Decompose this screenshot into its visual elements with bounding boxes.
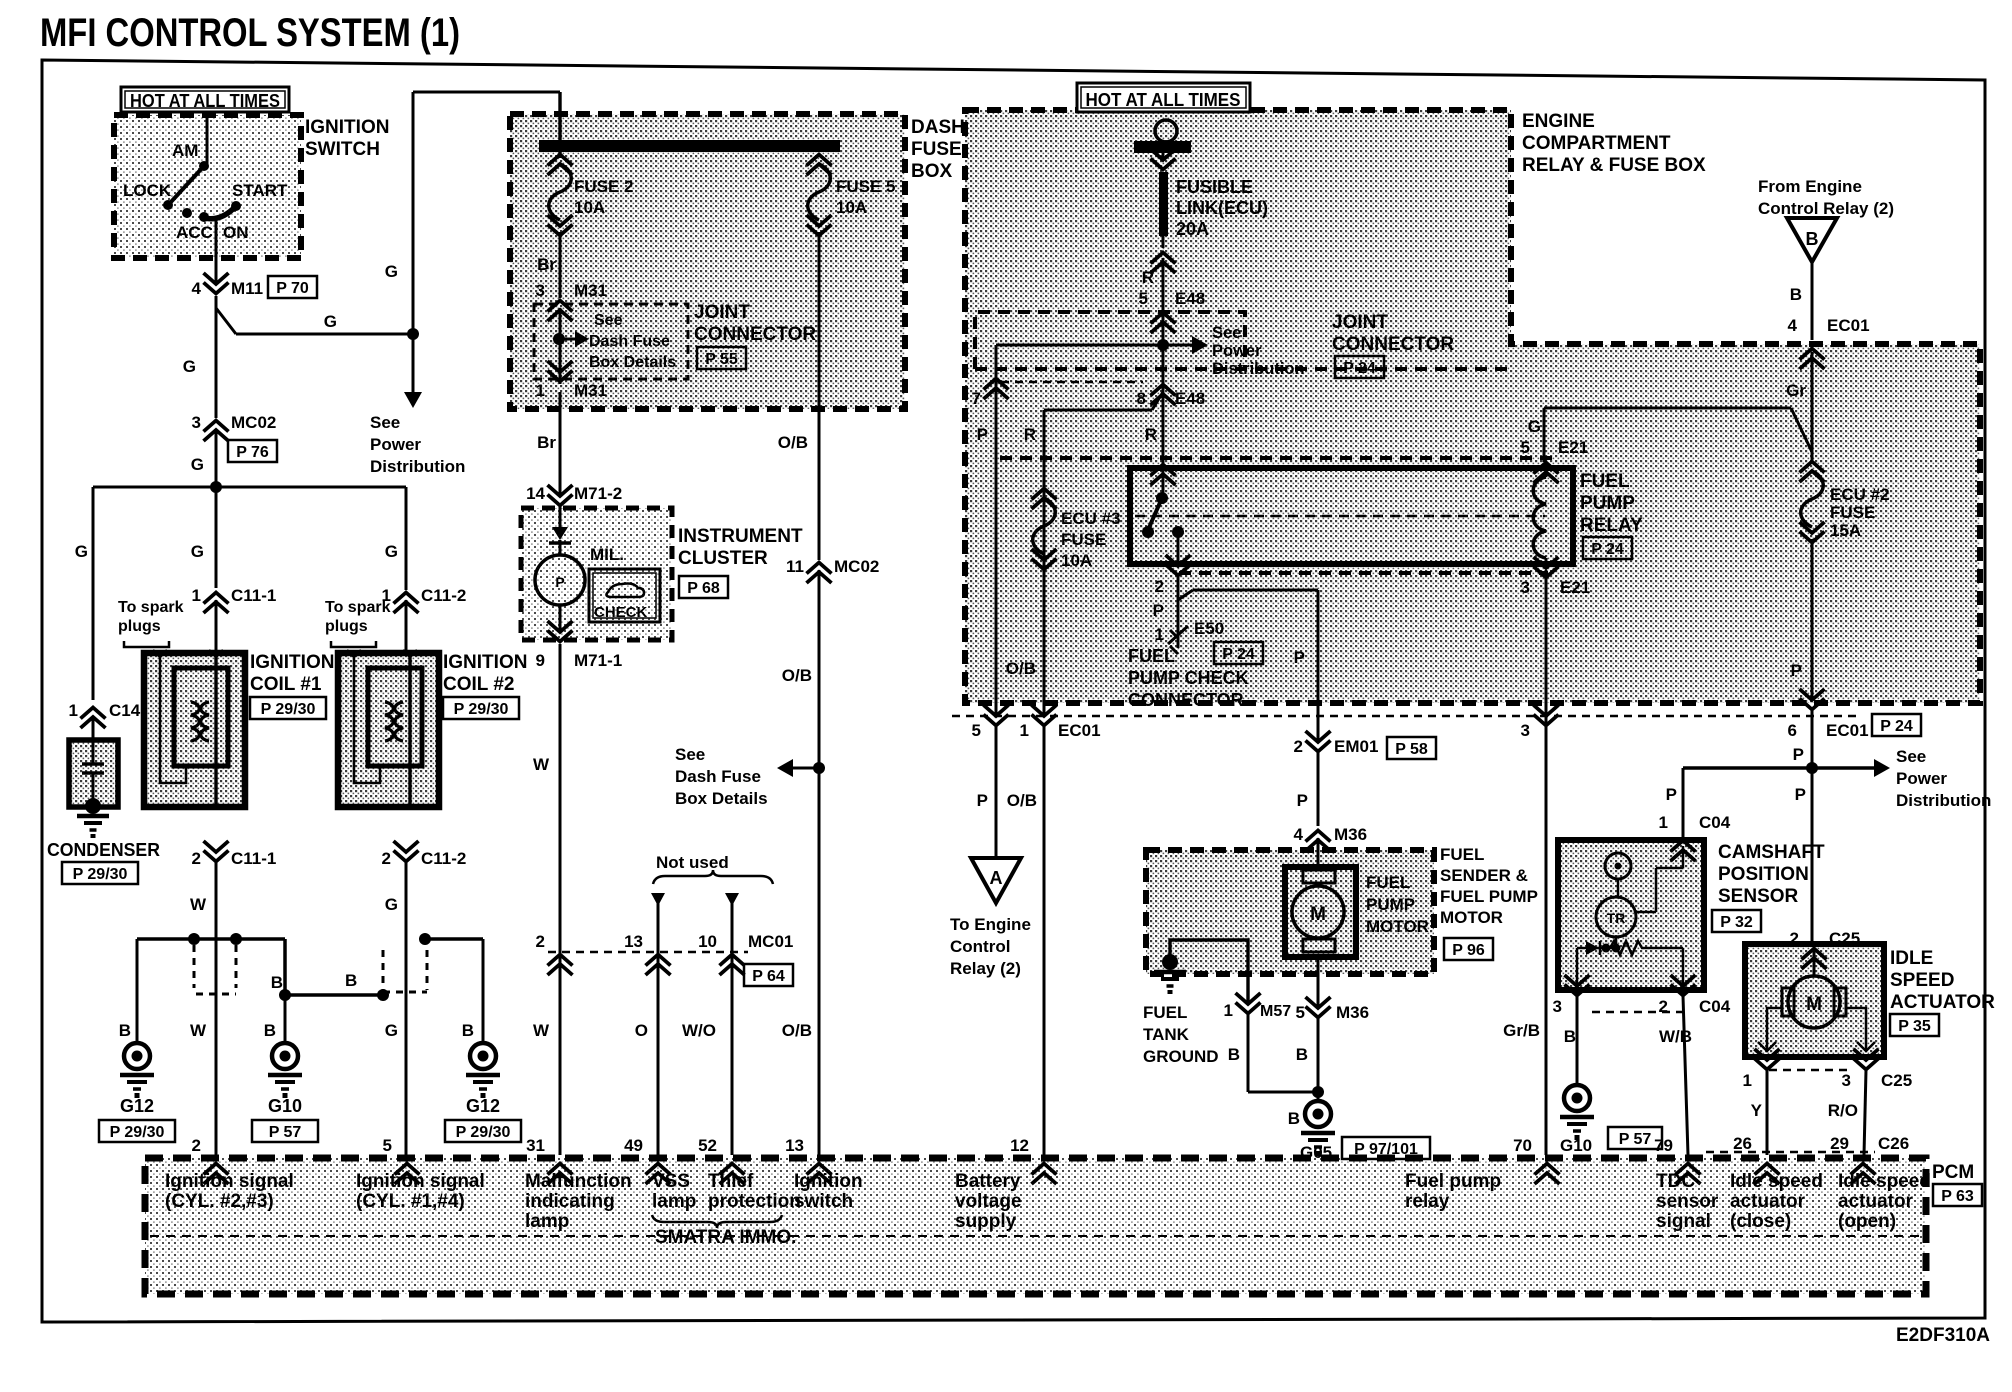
svg-text:CHECK: CHECK <box>594 604 648 621</box>
svg-text:2: 2 <box>1155 577 1164 596</box>
svg-text:M31: M31 <box>574 381 607 400</box>
svg-text:2: 2 <box>536 932 545 951</box>
svg-text:R/O: R/O <box>1828 1101 1858 1120</box>
svg-text:O: O <box>635 1021 648 1040</box>
svg-text:C14: C14 <box>109 701 141 720</box>
svg-text:M57: M57 <box>1260 1003 1291 1020</box>
svg-text:10A: 10A <box>1061 551 1092 570</box>
svg-text:8: 8 <box>1137 389 1146 408</box>
svg-text:G: G <box>1528 417 1541 436</box>
svg-text:See: See <box>1212 324 1241 342</box>
svg-text:MIL.: MIL. <box>590 545 624 564</box>
svg-text:ACTUATOR: ACTUATOR <box>1890 992 1995 1013</box>
svg-text:5: 5 <box>1296 1003 1305 1022</box>
svg-text:(close): (close) <box>1730 1211 1791 1232</box>
svg-text:E21: E21 <box>1558 438 1588 457</box>
svg-text:FUSE 2: FUSE 2 <box>574 177 634 196</box>
svg-text:E48: E48 <box>1175 389 1205 408</box>
svg-text:COMPARTMENT: COMPARTMENT <box>1522 133 1671 154</box>
svg-text:P 32: P 32 <box>1720 914 1753 931</box>
svg-text:R: R <box>1145 425 1157 444</box>
svg-text:9: 9 <box>536 651 545 670</box>
svg-text:M71-1: M71-1 <box>574 651 622 670</box>
svg-text:MOTOR: MOTOR <box>1366 917 1429 936</box>
svg-text:Ignition: Ignition <box>794 1171 863 1192</box>
svg-text:O/B: O/B <box>1006 659 1036 678</box>
svg-text:See: See <box>594 312 623 329</box>
svg-text:10A: 10A <box>836 198 867 217</box>
svg-text:COIL #1: COIL #1 <box>250 674 322 695</box>
svg-text:MFI CONTROL SYSTEM (1): MFI CONTROL SYSTEM (1) <box>40 11 460 55</box>
svg-text:Control Relay (2): Control Relay (2) <box>1758 199 1894 218</box>
svg-text:FUSE: FUSE <box>911 139 962 160</box>
svg-text:Ignition signal: Ignition signal <box>356 1171 485 1192</box>
svg-text:PUMP: PUMP <box>1580 493 1635 514</box>
svg-text:P 24: P 24 <box>1222 646 1255 663</box>
svg-text:CONNECTOR: CONNECTOR <box>694 324 816 345</box>
svg-text:B: B <box>1790 285 1802 304</box>
svg-text:Y: Y <box>1751 1101 1763 1120</box>
svg-text:B: B <box>1806 229 1819 249</box>
svg-text:3: 3 <box>1521 721 1530 740</box>
svg-text:5: 5 <box>1521 438 1530 457</box>
svg-text:P: P <box>1791 661 1802 680</box>
svg-text:Br: Br <box>537 433 556 452</box>
svg-text:Dash Fuse: Dash Fuse <box>589 333 670 350</box>
svg-text:P 24: P 24 <box>1591 541 1624 558</box>
svg-text:INSTRUMENT: INSTRUMENT <box>678 526 803 547</box>
svg-text:ENGINE: ENGINE <box>1522 111 1595 132</box>
svg-text:EC01: EC01 <box>1058 721 1101 740</box>
svg-text:IGNITION: IGNITION <box>305 117 389 138</box>
svg-text:MC02: MC02 <box>231 413 276 432</box>
svg-text:Br: Br <box>537 255 556 274</box>
svg-text:G: G <box>75 542 88 561</box>
svg-text:ECU #3: ECU #3 <box>1061 509 1121 528</box>
svg-text:HOT AT ALL TIMES: HOT AT ALL TIMES <box>1086 90 1241 110</box>
svg-text:G: G <box>385 895 398 914</box>
svg-text:POSITION: POSITION <box>1718 864 1809 885</box>
svg-text:MC02: MC02 <box>834 557 879 576</box>
svg-text:SENDER &: SENDER & <box>1440 866 1528 885</box>
svg-text:(CYL. #2,#3): (CYL. #2,#3) <box>165 1191 274 1212</box>
svg-text:MOTOR: MOTOR <box>1440 908 1503 927</box>
svg-text:10: 10 <box>698 932 717 951</box>
svg-text:P: P <box>1294 648 1305 667</box>
svg-text:FUEL: FUEL <box>1143 1003 1187 1022</box>
svg-text:(CYL. #1,#4): (CYL. #1,#4) <box>356 1191 465 1212</box>
svg-text:P: P <box>555 574 564 590</box>
svg-text:C11-1: C11-1 <box>231 586 276 605</box>
svg-text:Gr/B: Gr/B <box>1503 1021 1540 1040</box>
svg-text:HOT AT ALL TIMES: HOT AT ALL TIMES <box>130 91 280 111</box>
svg-text:7: 7 <box>972 389 981 408</box>
svg-text:BOX: BOX <box>911 161 953 182</box>
svg-text:PUMP: PUMP <box>1366 895 1415 914</box>
svg-text:C26: C26 <box>1878 1134 1909 1153</box>
svg-text:actuator: actuator <box>1838 1191 1914 1212</box>
svg-text:70: 70 <box>1513 1136 1532 1155</box>
svg-text:Power: Power <box>370 435 421 454</box>
svg-text:Distribution: Distribution <box>370 457 465 476</box>
svg-text:lamp: lamp <box>525 1211 569 1232</box>
svg-text:1: 1 <box>1743 1071 1752 1090</box>
svg-text:indicating: indicating <box>525 1191 615 1212</box>
svg-text:13: 13 <box>624 932 643 951</box>
svg-text:(open): (open) <box>1838 1211 1896 1232</box>
svg-text:MC01: MC01 <box>748 932 793 951</box>
svg-text:3: 3 <box>536 281 545 300</box>
svg-text:O/B: O/B <box>778 433 808 452</box>
svg-text:To spark: To spark <box>118 599 184 616</box>
svg-text:Power: Power <box>1896 769 1947 788</box>
svg-text:RELAY & FUSE BOX: RELAY & FUSE BOX <box>1522 155 1706 176</box>
svg-text:P: P <box>1153 601 1164 620</box>
svg-text:C11-2: C11-2 <box>421 849 466 868</box>
svg-text:switch: switch <box>794 1191 853 1212</box>
svg-text:plugs: plugs <box>325 618 368 635</box>
svg-text:Ignition signal: Ignition signal <box>165 1171 294 1192</box>
svg-text:Gr: Gr <box>1786 381 1806 400</box>
svg-text:P: P <box>1297 791 1308 810</box>
svg-text:W/B: W/B <box>1659 1027 1692 1046</box>
svg-text:G10: G10 <box>1560 1136 1592 1155</box>
svg-text:CONDENSER: CONDENSER <box>47 840 160 860</box>
svg-text:relay: relay <box>1405 1191 1450 1212</box>
svg-text:FUEL PUMP: FUEL PUMP <box>1440 887 1538 906</box>
svg-text:P 29/30: P 29/30 <box>456 1124 511 1141</box>
svg-text:SENSOR: SENSOR <box>1718 886 1799 907</box>
svg-text:Malfunction: Malfunction <box>525 1171 632 1192</box>
svg-text:20A: 20A <box>1176 219 1209 239</box>
svg-text:P: P <box>1793 745 1804 764</box>
svg-text:VSS: VSS <box>652 1171 690 1192</box>
svg-text:voltage: voltage <box>955 1191 1022 1212</box>
svg-text:3: 3 <box>192 413 201 432</box>
svg-text:AM: AM <box>172 141 198 160</box>
svg-text:See: See <box>370 413 400 432</box>
svg-text:JOINT: JOINT <box>694 302 750 323</box>
svg-text:FUSE: FUSE <box>1830 503 1875 522</box>
svg-text:Relay (2): Relay (2) <box>950 959 1021 978</box>
svg-text:TDC: TDC <box>1656 1171 1695 1192</box>
svg-text:P 63: P 63 <box>1941 1188 1974 1205</box>
svg-text:W: W <box>190 1021 207 1040</box>
svg-text:START: START <box>232 181 288 200</box>
svg-text:15A: 15A <box>1830 521 1861 540</box>
svg-text:DASH: DASH <box>911 117 965 138</box>
svg-text:SWITCH: SWITCH <box>305 139 380 160</box>
svg-text:O/B: O/B <box>1007 791 1037 810</box>
svg-text:Idle speed: Idle speed <box>1730 1171 1823 1192</box>
svg-text:See: See <box>675 745 705 764</box>
svg-text:FUEL: FUEL <box>1580 471 1630 492</box>
svg-text:O/B: O/B <box>782 666 812 685</box>
svg-text:E2DF310A: E2DF310A <box>1896 1325 1990 1346</box>
svg-text:E50: E50 <box>1194 619 1224 638</box>
svg-text:B: B <box>1564 1027 1576 1046</box>
svg-text:G: G <box>385 542 398 561</box>
svg-text:O/B: O/B <box>782 1021 812 1040</box>
svg-text:Box Details: Box Details <box>675 789 768 808</box>
svg-text:M31: M31 <box>574 281 607 300</box>
svg-text:FUEL: FUEL <box>1128 646 1175 666</box>
svg-text:6: 6 <box>1788 721 1797 740</box>
svg-text:2: 2 <box>1294 737 1303 756</box>
svg-text:G12: G12 <box>466 1096 500 1116</box>
svg-text:ECU #2: ECU #2 <box>1830 485 1890 504</box>
svg-text:B: B <box>264 1021 276 1040</box>
svg-text:B: B <box>1296 1045 1308 1064</box>
svg-text:P 55: P 55 <box>705 351 738 368</box>
svg-text:W: W <box>533 755 550 774</box>
svg-text:G: G <box>183 357 196 376</box>
svg-text:P 76: P 76 <box>236 444 269 461</box>
svg-text:R: R <box>1024 425 1036 444</box>
svg-text:P 29/30: P 29/30 <box>261 701 316 718</box>
svg-text:B: B <box>345 971 357 990</box>
svg-text:R: R <box>1142 268 1154 287</box>
svg-text:GROUND: GROUND <box>1143 1047 1219 1066</box>
svg-text:3: 3 <box>1521 578 1530 597</box>
svg-text:C04: C04 <box>1699 813 1731 832</box>
svg-text:FUEL: FUEL <box>1440 845 1484 864</box>
svg-text:13: 13 <box>785 1136 804 1155</box>
svg-text:W: W <box>190 895 207 914</box>
svg-text:P 70: P 70 <box>276 280 309 297</box>
svg-text:CONNECTOR: CONNECTOR <box>1332 334 1454 355</box>
svg-text:Battery: Battery <box>955 1171 1021 1192</box>
svg-text:P 96: P 96 <box>1452 942 1485 959</box>
svg-text:P 64: P 64 <box>752 968 785 985</box>
svg-text:E48: E48 <box>1175 289 1205 308</box>
svg-text:P 24: P 24 <box>1880 718 1913 735</box>
svg-text:supply: supply <box>955 1211 1017 1232</box>
svg-text:M: M <box>1806 994 1822 1015</box>
svg-text:52: 52 <box>698 1136 717 1155</box>
svg-text:M71-2: M71-2 <box>574 484 622 503</box>
svg-text:1: 1 <box>1020 721 1029 740</box>
svg-text:FUSIBLE: FUSIBLE <box>1176 177 1253 197</box>
svg-text:A: A <box>990 868 1003 888</box>
svg-text:LOCK: LOCK <box>123 181 172 200</box>
svg-text:P: P <box>977 791 988 810</box>
svg-text:B: B <box>119 1021 131 1040</box>
svg-text:EC01: EC01 <box>1826 721 1869 740</box>
svg-text:P 58: P 58 <box>1395 741 1428 758</box>
svg-text:E21: E21 <box>1560 578 1590 597</box>
svg-text:Thief: Thief <box>708 1171 754 1192</box>
svg-text:5: 5 <box>1139 289 1148 308</box>
svg-text:P 68: P 68 <box>687 580 720 597</box>
svg-text:4: 4 <box>1294 825 1304 844</box>
svg-text:SPEED: SPEED <box>1890 970 1954 991</box>
svg-text:FUSE: FUSE <box>1061 530 1106 549</box>
svg-text:Not used: Not used <box>656 853 729 872</box>
svg-text:29: 29 <box>1830 1134 1849 1153</box>
svg-text:10A: 10A <box>574 198 605 217</box>
svg-text:SMATRA IMMO.: SMATRA IMMO. <box>655 1227 796 1248</box>
svg-text:B: B <box>1228 1045 1240 1064</box>
svg-text:FUEL: FUEL <box>1366 873 1410 892</box>
svg-text:4: 4 <box>192 279 202 298</box>
svg-text:C11-2: C11-2 <box>421 586 466 605</box>
svg-text:G: G <box>324 312 337 331</box>
svg-text:4: 4 <box>1788 316 1798 335</box>
svg-text:G: G <box>191 542 204 561</box>
svg-text:Distribution: Distribution <box>1896 791 1991 810</box>
svg-text:26: 26 <box>1733 1134 1752 1153</box>
svg-text:79: 79 <box>1654 1136 1673 1155</box>
svg-text:COIL #2: COIL #2 <box>443 674 514 695</box>
svg-text:IDLE: IDLE <box>1890 948 1933 969</box>
svg-text:G05: G05 <box>1300 1143 1332 1162</box>
svg-text:G12: G12 <box>120 1096 154 1116</box>
svg-text:14: 14 <box>526 484 545 503</box>
svg-text:P 29/30: P 29/30 <box>110 1124 165 1141</box>
svg-text:Idle speed: Idle speed <box>1838 1171 1931 1192</box>
svg-text:W: W <box>533 1021 550 1040</box>
svg-text:G10: G10 <box>268 1096 302 1116</box>
svg-text:5: 5 <box>972 721 981 740</box>
svg-text:12: 12 <box>1010 1136 1029 1155</box>
svg-text:EM01: EM01 <box>1334 737 1378 756</box>
svg-text:5: 5 <box>383 1136 392 1155</box>
svg-text:sensor: sensor <box>1656 1191 1719 1212</box>
svg-text:CONNECTOR: CONNECTOR <box>1128 690 1244 710</box>
svg-text:B: B <box>1288 1109 1300 1128</box>
svg-text:EC01: EC01 <box>1827 316 1870 335</box>
svg-text:P: P <box>1795 785 1806 804</box>
svg-text:PCM: PCM <box>1932 1162 1974 1183</box>
svg-text:Control: Control <box>950 937 1010 956</box>
svg-text:2: 2 <box>382 849 391 868</box>
svg-text:C11-1: C11-1 <box>231 849 276 868</box>
svg-text:See: See <box>1896 747 1926 766</box>
svg-text:TANK: TANK <box>1143 1025 1190 1044</box>
svg-text:11: 11 <box>786 557 804 576</box>
svg-text:To spark: To spark <box>325 599 391 616</box>
svg-text:lamp: lamp <box>652 1191 696 1212</box>
svg-text:3: 3 <box>1553 997 1562 1016</box>
svg-text:M36: M36 <box>1334 825 1367 844</box>
svg-text:JOINT: JOINT <box>1332 312 1388 333</box>
svg-text:plugs: plugs <box>118 618 161 635</box>
svg-text:Dash Fuse: Dash Fuse <box>675 767 761 786</box>
svg-text:ON: ON <box>223 223 249 242</box>
svg-text:2: 2 <box>1659 997 1668 1016</box>
svg-text:1: 1 <box>1155 625 1164 644</box>
svg-text:protection: protection <box>708 1191 801 1212</box>
svg-text:3: 3 <box>1842 1071 1851 1090</box>
svg-text:G: G <box>191 455 204 474</box>
svg-text:1: 1 <box>69 701 78 720</box>
svg-text:P 57: P 57 <box>269 1124 302 1141</box>
svg-text:FUSE 5: FUSE 5 <box>836 177 896 196</box>
svg-text:P 29/30: P 29/30 <box>73 866 128 883</box>
svg-text:Box Details: Box Details <box>589 354 676 371</box>
svg-text:TR: TR <box>1607 910 1626 926</box>
svg-text:1: 1 <box>192 586 201 605</box>
svg-text:PUMP CHECK: PUMP CHECK <box>1128 668 1249 688</box>
svg-text:CLUSTER: CLUSTER <box>678 548 768 569</box>
svg-text:P 97/101: P 97/101 <box>1354 1141 1418 1158</box>
svg-text:LINK(ECU): LINK(ECU) <box>1176 198 1268 218</box>
svg-text:C25: C25 <box>1881 1071 1912 1090</box>
svg-text:P: P <box>977 425 988 444</box>
svg-text:1: 1 <box>1659 813 1668 832</box>
svg-text:Fuel pump: Fuel pump <box>1405 1171 1501 1192</box>
svg-text:G: G <box>385 1021 398 1040</box>
svg-text:B: B <box>462 1021 474 1040</box>
svg-text:RELAY: RELAY <box>1580 515 1643 536</box>
svg-text:B: B <box>271 973 283 992</box>
svg-text:31: 31 <box>526 1136 545 1155</box>
svg-text:W/O: W/O <box>682 1021 716 1040</box>
svg-text:2: 2 <box>192 849 201 868</box>
svg-text:M: M <box>1310 904 1326 925</box>
svg-text:2: 2 <box>192 1136 201 1155</box>
svg-text:P: P <box>1666 785 1677 804</box>
svg-text:G: G <box>385 262 398 281</box>
svg-text:CAMSHAFT: CAMSHAFT <box>1718 842 1825 863</box>
svg-text:Power: Power <box>1212 342 1262 360</box>
svg-text:ACC: ACC <box>176 223 213 242</box>
svg-text:1: 1 <box>1224 1001 1233 1020</box>
svg-text:IGNITION: IGNITION <box>250 652 334 673</box>
svg-text:C04: C04 <box>1699 997 1731 1016</box>
svg-text:actuator: actuator <box>1730 1191 1806 1212</box>
svg-text:M11: M11 <box>231 279 263 298</box>
svg-text:M36: M36 <box>1336 1003 1369 1022</box>
svg-text:From Engine: From Engine <box>1758 177 1862 196</box>
svg-text:P 57: P 57 <box>1619 1131 1652 1148</box>
svg-text:P 29/30: P 29/30 <box>454 701 509 718</box>
svg-text:1: 1 <box>536 381 545 400</box>
svg-text:To Engine: To Engine <box>950 915 1031 934</box>
svg-text:signal: signal <box>1656 1211 1711 1232</box>
svg-text:P 35: P 35 <box>1898 1018 1931 1035</box>
svg-text:49: 49 <box>624 1136 643 1155</box>
svg-text:IGNITION: IGNITION <box>443 652 527 673</box>
